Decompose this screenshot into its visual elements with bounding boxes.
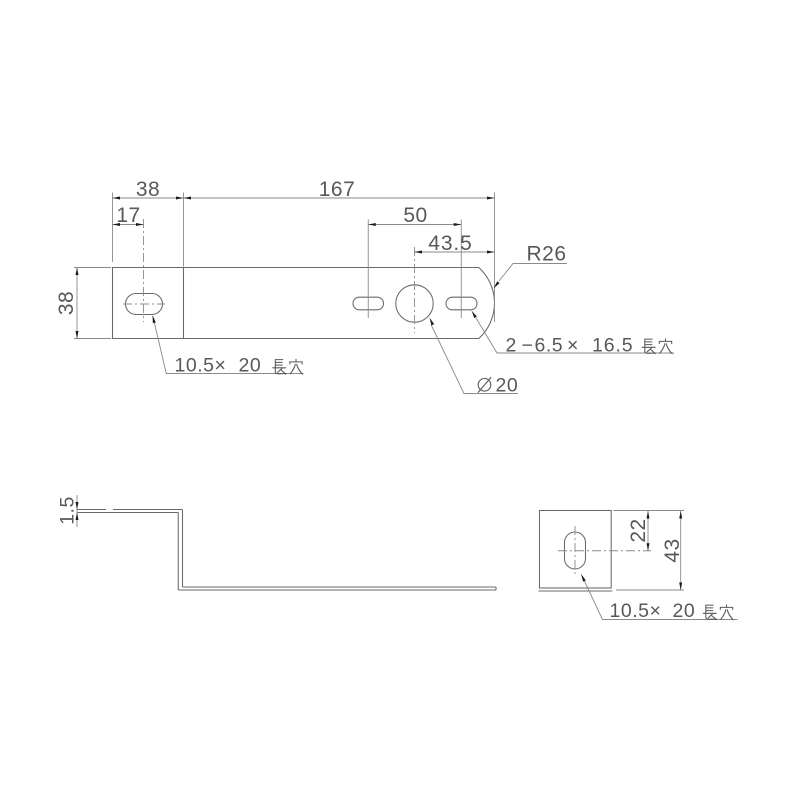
svg-text:6.5: 6.5 bbox=[535, 335, 564, 357]
svg-text:20: 20 bbox=[673, 600, 696, 622]
svg-text:10.5×: 10.5× bbox=[175, 355, 227, 377]
svg-text:43: 43 bbox=[661, 538, 684, 562]
svg-text:50: 50 bbox=[403, 204, 427, 227]
svg-text:−: − bbox=[522, 335, 534, 357]
svg-text:R26: R26 bbox=[527, 243, 567, 266]
svg-text:38: 38 bbox=[55, 291, 78, 315]
svg-text:1.5: 1.5 bbox=[57, 496, 79, 525]
svg-text:20: 20 bbox=[239, 355, 262, 377]
svg-text:2: 2 bbox=[506, 335, 517, 357]
svg-text:20: 20 bbox=[496, 375, 519, 397]
svg-text:16.5: 16.5 bbox=[592, 335, 634, 357]
svg-text:×: × bbox=[567, 335, 579, 357]
svg-text:167: 167 bbox=[319, 178, 356, 201]
svg-text:17: 17 bbox=[116, 204, 140, 227]
svg-text:43.5: 43.5 bbox=[428, 232, 472, 255]
svg-text:38: 38 bbox=[136, 178, 160, 201]
svg-text:10.5×: 10.5× bbox=[610, 600, 662, 622]
svg-text:22: 22 bbox=[627, 518, 650, 542]
